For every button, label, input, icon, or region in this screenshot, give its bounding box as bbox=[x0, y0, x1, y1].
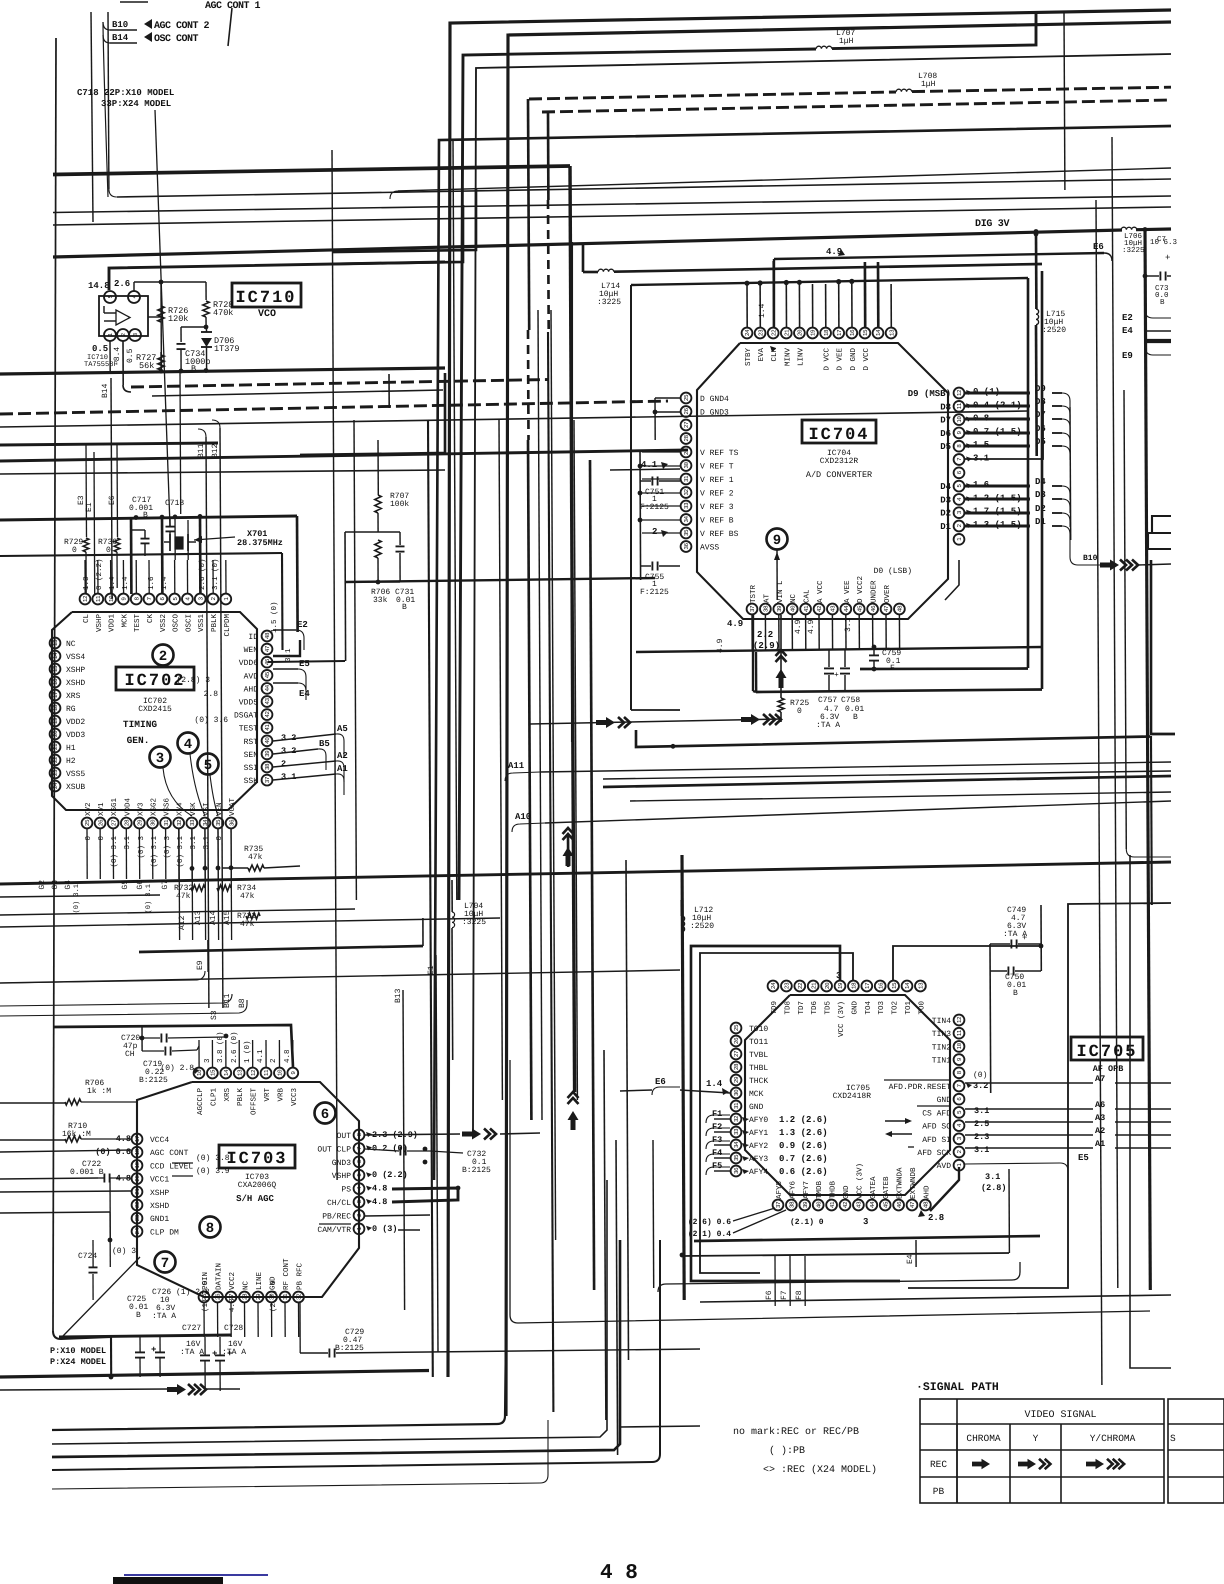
IC703 chip outline bbox=[137, 1082, 359, 1297]
svg-text:VDD1: VDD1 bbox=[109, 614, 117, 633]
svg-text:CXA2006Q: CXA2006Q bbox=[238, 1181, 277, 1190]
svg-text:F7: F7 bbox=[780, 1290, 789, 1300]
svg-text:2: 2 bbox=[281, 759, 286, 769]
svg-text:+: + bbox=[212, 1349, 217, 1359]
svg-text:TVBL: TVBL bbox=[749, 1051, 768, 1060]
svg-text:RG: RG bbox=[66, 705, 76, 714]
svg-text:1.5 (0): 1.5 (0) bbox=[270, 601, 279, 633]
svg-text:D8: D8 bbox=[940, 402, 951, 412]
wire bbox=[506, 22, 1171, 1416]
svg-text::2520: :2520 bbox=[1042, 326, 1066, 335]
svg-text:1k :M: 1k :M bbox=[87, 1087, 111, 1096]
svg-text:23: 23 bbox=[52, 769, 59, 776]
svg-text:3.1: 3.1 bbox=[281, 772, 296, 782]
svg-text:29: 29 bbox=[255, 1293, 262, 1300]
wire pin 30 IC702 bottom bbox=[152, 829, 154, 879]
svg-text:V REF 1: V REF 1 bbox=[700, 476, 734, 485]
wire dashed left bbox=[0, 401, 668, 414]
wire pin 45 IC704 bottom bbox=[858, 615, 860, 650]
svg-text:2.6 (0): 2.6 (0) bbox=[230, 1031, 239, 1063]
svg-text:XSHD: XSHD bbox=[66, 679, 85, 688]
wire pin 19 IC704 top bbox=[812, 284, 814, 328]
svg-text:5: 5 bbox=[204, 758, 212, 774]
svg-text:470k: 470k bbox=[213, 308, 233, 318]
svg-text:20: 20 bbox=[797, 329, 804, 336]
svg-text:MCK: MCK bbox=[749, 1090, 764, 1099]
svg-text:31: 31 bbox=[683, 475, 690, 482]
svg-text:(0) 3.1: (0) 3.1 bbox=[72, 884, 81, 913]
wire knot L1 bbox=[332, 188, 476, 252]
svg-text:D VCC: D VCC bbox=[862, 348, 871, 371]
svg-text:33P:X24 MODEL: 33P:X24 MODEL bbox=[101, 99, 171, 109]
wire bbox=[1112, 137, 1118, 1288]
svg-text:G4: G4 bbox=[64, 880, 73, 890]
svg-text:PS: PS bbox=[341, 1186, 351, 1195]
wire bbox=[499, 420, 502, 1100]
svg-text:1.4: 1.4 bbox=[109, 576, 117, 590]
wire left pins bus bbox=[639, 450, 642, 580]
svg-text:0.7 (2.6): 0.7 (2.6) bbox=[779, 1154, 828, 1164]
svg-text:S3: S3 bbox=[210, 1010, 219, 1020]
svg-text:0.9 (2.6): 0.9 (2.6) bbox=[779, 1141, 828, 1151]
svg-text:36: 36 bbox=[683, 543, 690, 550]
svg-text:47: 47 bbox=[883, 605, 890, 612]
svg-text:(2.8): (2.8) bbox=[981, 1183, 1007, 1193]
wire AVD diagonal bbox=[930, 1167, 959, 1211]
wire pin 16 IC704 top bbox=[851, 284, 853, 328]
svg-text:0.2 (0): 0.2 (0) bbox=[372, 1143, 408, 1153]
svg-text:XV3: XV3 bbox=[136, 802, 145, 816]
wire pin 43 IC704 bottom bbox=[831, 615, 833, 650]
svg-text:Y: Y bbox=[1033, 1433, 1039, 1444]
svg-text:24: 24 bbox=[134, 1227, 141, 1234]
svg-text:4.9: 4.9 bbox=[727, 619, 743, 629]
svg-text:REC: REC bbox=[930, 1459, 947, 1470]
svg-text:3.1: 3.1 bbox=[844, 617, 853, 632]
svg-text:35: 35 bbox=[215, 819, 222, 826]
svg-text:1.3 (2.6): 1.3 (2.6) bbox=[779, 1128, 828, 1138]
wire bbox=[1130, 855, 1171, 1368]
wire bbox=[604, 1050, 606, 1420]
wire VSS2 stub bbox=[161, 517, 164, 594]
wire long 1323 bbox=[510, 1060, 1150, 1323]
junction dots bbox=[190, 866, 195, 871]
svg-text:OSCI: OSCI bbox=[184, 614, 193, 632]
svg-text:0: 0 bbox=[797, 707, 802, 716]
svg-text:F5: F5 bbox=[712, 1161, 722, 1171]
svg-text:CHROMA: CHROMA bbox=[966, 1433, 1001, 1444]
IC703 label box bbox=[219, 1145, 295, 1168]
svg-text:42: 42 bbox=[842, 1201, 849, 1208]
wire bbox=[434, 126, 1171, 1180]
svg-text:MINV: MINV bbox=[784, 348, 792, 367]
svg-text:2.2: 2.2 bbox=[757, 630, 773, 640]
svg-text:VCC1: VCC1 bbox=[150, 1176, 169, 1185]
svg-text:G7: G7 bbox=[161, 880, 170, 890]
wire stubs left IC703 bbox=[0, 1150, 131, 1152]
svg-text:V REF B: V REF B bbox=[700, 517, 734, 526]
svg-text:1T379: 1T379 bbox=[214, 344, 240, 354]
wire pin 20 IC704 top bbox=[798, 284, 800, 328]
svg-text:48: 48 bbox=[923, 1201, 930, 1208]
svg-text:VDD3: VDD3 bbox=[66, 731, 85, 740]
svg-text:31: 31 bbox=[163, 819, 170, 826]
svg-text:VSS4: VSS4 bbox=[66, 653, 85, 662]
svg-text:4.9: 4.9 bbox=[794, 619, 803, 634]
svg-text:21: 21 bbox=[784, 329, 791, 336]
svg-text:24: 24 bbox=[52, 782, 59, 789]
wire bbox=[133, 282, 135, 291]
svg-text:41: 41 bbox=[829, 1201, 836, 1208]
node A1 bbox=[273, 774, 336, 780]
svg-text:(0) 3.9: (0) 3.9 bbox=[196, 1167, 230, 1176]
wire wrap right inner bbox=[631, 278, 1028, 285]
svg-text:38: 38 bbox=[789, 1201, 796, 1208]
capacitor C755 bbox=[651, 562, 653, 571]
wire bbox=[448, 10, 1171, 1377]
svg-text:VSS1: VSS1 bbox=[197, 614, 206, 633]
svg-text:G6: G6 bbox=[136, 880, 145, 890]
svg-text:XV1: XV1 bbox=[98, 802, 106, 816]
wire pin 30 IC703 bottom bbox=[271, 1303, 273, 1337]
svg-text:20: 20 bbox=[824, 982, 831, 989]
wire corner right 2 bbox=[1148, 533, 1171, 549]
IC704 label box bbox=[802, 420, 876, 443]
svg-text:E4: E4 bbox=[906, 1254, 915, 1264]
svg-text:23: 23 bbox=[134, 1214, 141, 1221]
svg-text:11: 11 bbox=[956, 1029, 963, 1036]
pin 5 IC710 bbox=[104, 291, 116, 303]
svg-text:CXD2312R: CXD2312R bbox=[820, 457, 859, 466]
svg-text:10: 10 bbox=[956, 1042, 963, 1049]
svg-text:IC704: IC704 bbox=[808, 426, 869, 445]
wire thick bottom of IC704 zone bbox=[636, 730, 1150, 747]
svg-text:D VCC: D VCC bbox=[823, 348, 832, 371]
IC703 bottom pins 25..32 bbox=[199, 1292, 210, 1303]
svg-text:E1: E1 bbox=[427, 965, 436, 975]
wire right verticals bbox=[989, 944, 992, 1093]
svg-text:VCC3: VCC3 bbox=[290, 1088, 299, 1107]
svg-text:4.8: 4.8 bbox=[228, 1298, 237, 1312]
svg-text:G2: G2 bbox=[38, 880, 47, 890]
svg-text:AF OPB: AF OPB bbox=[1093, 1064, 1124, 1074]
svg-text:23: 23 bbox=[784, 982, 791, 989]
wire bbox=[473, 54, 1171, 1130]
wire pin 44 IC704 bottom bbox=[845, 615, 847, 650]
svg-text:A2: A2 bbox=[337, 751, 348, 761]
wire bbox=[390, 191, 398, 199]
svg-text:B: B bbox=[853, 713, 858, 722]
svg-text:D6: D6 bbox=[940, 429, 951, 439]
svg-text:2.8: 2.8 bbox=[204, 690, 219, 699]
svg-text:19: 19 bbox=[810, 329, 817, 336]
svg-text:13: 13 bbox=[52, 639, 59, 646]
node E4 bbox=[273, 682, 298, 684]
svg-text:C7: C7 bbox=[1157, 235, 1166, 244]
wire pin 28 IC703 bottom bbox=[244, 1303, 246, 1337]
svg-text:S: S bbox=[1170, 1433, 1176, 1444]
svg-text:H2: H2 bbox=[66, 757, 76, 766]
wire pin 15 IC703 top bbox=[211, 1040, 213, 1068]
svg-text:3.1 (0): 3.1 (0) bbox=[211, 558, 220, 590]
svg-text:no mark:REC or REC/PB: no mark:REC or REC/PB bbox=[733, 1426, 859, 1438]
svg-text:CLPDM: CLPDM bbox=[223, 614, 232, 637]
svg-text:THCK: THCK bbox=[749, 1077, 768, 1086]
svg-text:47: 47 bbox=[909, 1201, 916, 1208]
mark 9 bbox=[767, 529, 788, 550]
wire pin 27 IC703 bottom bbox=[230, 1303, 232, 1337]
svg-text:D5: D5 bbox=[940, 442, 951, 452]
arrow right 2 bbox=[741, 714, 760, 725]
svg-text:B10: B10 bbox=[112, 20, 128, 30]
svg-text:34: 34 bbox=[733, 1141, 740, 1148]
svg-text:F:2125: F:2125 bbox=[640, 588, 669, 597]
svg-text:F: F bbox=[890, 664, 895, 673]
wire bottom wrap bbox=[636, 647, 1042, 652]
wire corner 553 bbox=[0, 553, 282, 556]
wire pin 9 IC702 top bbox=[122, 560, 124, 594]
svg-text:33: 33 bbox=[189, 819, 196, 826]
wire pin 25 IC703 bottom bbox=[203, 1303, 205, 1337]
wire DIG 3V bbox=[53, 230, 1122, 257]
svg-text:33k: 33k bbox=[373, 596, 388, 605]
svg-text:DSGAT: DSGAT bbox=[234, 712, 258, 721]
svg-text:OUT CLP: OUT CLP bbox=[317, 1145, 351, 1154]
svg-text:46: 46 bbox=[896, 1201, 903, 1208]
IC705 chip outline bbox=[745, 995, 950, 1195]
svg-text:43: 43 bbox=[264, 698, 271, 705]
wire thick rail above IC702 bbox=[0, 516, 297, 520]
svg-text:0: 0 bbox=[97, 836, 106, 841]
svg-text:TEST: TEST bbox=[133, 614, 142, 633]
svg-text:THDB: THDB bbox=[830, 1180, 838, 1199]
svg-text:29: 29 bbox=[683, 448, 690, 455]
svg-text:XV2: XV2 bbox=[84, 802, 93, 816]
svg-text:14: 14 bbox=[875, 329, 882, 336]
svg-text:AFY6: AFY6 bbox=[788, 1180, 797, 1199]
svg-text:1.6: 1.6 bbox=[147, 576, 156, 590]
svg-text:28.375MHz: 28.375MHz bbox=[237, 538, 283, 548]
svg-text:A14: A14 bbox=[209, 910, 218, 925]
wire bottom wrap 2 bbox=[530, 719, 781, 724]
wire bottom wrap 2 bbox=[682, 1253, 1009, 1256]
svg-text:DIG 3V: DIG 3V bbox=[975, 219, 1010, 230]
svg-text:34: 34 bbox=[202, 819, 209, 826]
inductor L714 bbox=[582, 244, 585, 272]
wire bbox=[53, 38, 56, 1331]
svg-text:20: 20 bbox=[52, 730, 59, 737]
svg-text:2.8: 2.8 bbox=[928, 1213, 944, 1223]
svg-text:D1: D1 bbox=[940, 522, 951, 532]
wire pin 2 IC702 top bbox=[212, 560, 214, 594]
wire pin 13 IC704 top bbox=[890, 284, 892, 328]
wire pin 25 IC702 bottom bbox=[86, 829, 88, 879]
wire knot L2 bbox=[332, 205, 463, 264]
svg-text:3.1: 3.1 bbox=[985, 1172, 1000, 1182]
wire bbox=[682, 855, 684, 1300]
wire pin 31 IC703 bottom bbox=[284, 1303, 286, 1337]
diode D706 bbox=[201, 331, 212, 333]
svg-text:4.1: 4.1 bbox=[257, 1049, 265, 1063]
svg-text:44: 44 bbox=[843, 605, 850, 612]
svg-text:TIN3: TIN3 bbox=[932, 1030, 951, 1039]
svg-text:B14: B14 bbox=[101, 383, 110, 398]
IC704 right pins 12..1 bbox=[954, 388, 965, 399]
svg-text:A7: A7 bbox=[1095, 1074, 1105, 1084]
svg-text:24: 24 bbox=[744, 329, 751, 336]
wire bbox=[53, 207, 1171, 225]
svg-text:PB RFC: PB RFC bbox=[296, 1262, 305, 1290]
mark 7 bbox=[155, 1252, 176, 1273]
svg-text:VSS6: VSS6 bbox=[163, 797, 172, 816]
wire A11 bbox=[505, 772, 540, 781]
wire wrap bottom inner bbox=[860, 667, 1028, 670]
svg-text:AT: AT bbox=[763, 593, 771, 603]
IC702 left pins 13..24 bbox=[50, 638, 61, 649]
wire thick stub bbox=[1146, 339, 1171, 343]
IC703 top pins 16..9 bbox=[194, 1068, 205, 1079]
svg-text:11: 11 bbox=[95, 595, 102, 602]
arrow right bottom-left bbox=[167, 1384, 186, 1395]
svg-text:NC: NC bbox=[66, 640, 76, 649]
svg-text:44: 44 bbox=[869, 1201, 876, 1208]
svg-text:V REF 2: V REF 2 bbox=[700, 490, 734, 499]
label AFD SCK arrow bbox=[908, 1146, 914, 1148]
svg-text:22: 22 bbox=[134, 1201, 141, 1208]
svg-text:38: 38 bbox=[264, 763, 271, 770]
svg-text:VDD4: VDD4 bbox=[124, 797, 132, 816]
svg-text:18: 18 bbox=[823, 329, 830, 336]
resistor R726 bbox=[158, 306, 164, 322]
svg-text:4 8: 4 8 bbox=[600, 1562, 638, 1584]
wire pin 10 IC702 top bbox=[110, 560, 112, 594]
wire bbox=[107, 12, 110, 189]
wire bottom wrap thick bbox=[694, 1236, 1040, 1241]
wire pin 46 IC704 bottom bbox=[872, 615, 874, 650]
svg-text:C727: C727 bbox=[182, 1324, 201, 1333]
pin 3 IC710 bbox=[129, 329, 141, 341]
svg-text:17: 17 bbox=[52, 691, 59, 698]
svg-text:35: 35 bbox=[683, 529, 690, 536]
svg-text:OVER: OVER bbox=[883, 584, 892, 603]
wire pin 31 IC702 bottom bbox=[165, 829, 167, 879]
wire wrap top right bbox=[893, 946, 1041, 980]
wire pin 33 IC702 bottom bbox=[191, 829, 193, 879]
svg-text:42: 42 bbox=[264, 711, 271, 718]
svg-text:IC703: IC703 bbox=[226, 1150, 287, 1169]
svg-text:12: 12 bbox=[956, 389, 963, 396]
svg-text:GATEA: GATEA bbox=[869, 1176, 878, 1199]
wire thick bbox=[0, 443, 218, 445]
wire knot L3 bbox=[300, 373, 445, 455]
svg-text:30: 30 bbox=[683, 462, 690, 469]
svg-text:28: 28 bbox=[242, 1293, 249, 1300]
svg-text:43: 43 bbox=[830, 605, 837, 612]
svg-text:F3: F3 bbox=[712, 1135, 722, 1145]
wire hook B11b bbox=[0, 994, 232, 1006]
wire pin 1 IC702 top bbox=[225, 560, 227, 594]
IC705 label box bbox=[1071, 1037, 1143, 1060]
svg-text:THBL: THBL bbox=[749, 1064, 768, 1073]
svg-text:4.8: 4.8 bbox=[283, 1049, 292, 1063]
node E5 bbox=[273, 668, 298, 670]
svg-text:35: 35 bbox=[733, 1154, 740, 1161]
resistor R706 / capacitor C731 box bbox=[345, 531, 400, 533]
wire bbox=[52, 1330, 506, 1430]
svg-text:15: 15 bbox=[210, 1069, 217, 1076]
svg-text:AGC CONT 2: AGC CONT 2 bbox=[154, 21, 210, 32]
svg-text:VRT: VRT bbox=[264, 1088, 272, 1102]
svg-text:38: 38 bbox=[763, 605, 770, 612]
svg-text:16: 16 bbox=[877, 982, 884, 989]
svg-text:TO2: TO2 bbox=[891, 1001, 900, 1015]
svg-text:A11: A11 bbox=[508, 761, 525, 771]
wire bbox=[626, 860, 629, 1360]
svg-text:6: 6 bbox=[321, 1107, 329, 1123]
svg-text:EXTWNDA: EXTWNDA bbox=[897, 1167, 905, 1199]
svg-text:D3: D3 bbox=[940, 495, 951, 505]
wire PB/REC bbox=[365, 1215, 430, 1216]
svg-text:TO3: TO3 bbox=[877, 1001, 886, 1015]
svg-text:23: 23 bbox=[757, 329, 764, 336]
svg-text:26: 26 bbox=[215, 1293, 222, 1300]
svg-text:26: 26 bbox=[733, 1037, 740, 1044]
wire pin 39 IC704 bottom bbox=[778, 615, 780, 650]
wire bbox=[0, 970, 680, 983]
wire wrap bottom outer bbox=[756, 690, 1042, 693]
wire pin 11 IC702 top bbox=[97, 560, 99, 594]
svg-text:TD7: TD7 bbox=[798, 1001, 806, 1015]
wire bbox=[332, 150, 337, 1180]
wire pin 36 IC702 bottom bbox=[230, 829, 232, 879]
svg-text:C724: C724 bbox=[78, 1252, 97, 1261]
svg-text:24: 24 bbox=[770, 982, 777, 989]
diagonal leader bbox=[62, 1257, 140, 1337]
svg-text:VSS5: VSS5 bbox=[66, 770, 85, 779]
IC710 label box bbox=[232, 283, 301, 307]
wire pin 13 IC703 top bbox=[238, 1040, 240, 1068]
svg-text:AVD: AVD bbox=[937, 1162, 952, 1171]
svg-text:4.8: 4.8 bbox=[372, 1184, 387, 1194]
wire pin 34 IC702 bottom bbox=[204, 829, 206, 879]
svg-text:47k: 47k bbox=[248, 853, 263, 862]
svg-text:16k :M: 16k :M bbox=[62, 1130, 91, 1139]
wire wrap pin19 VCC bbox=[691, 946, 900, 1281]
arrow up below IC704 bbox=[776, 669, 787, 688]
svg-text:VSS2: VSS2 bbox=[159, 614, 168, 632]
svg-text:V REF 3: V REF 3 bbox=[700, 503, 734, 512]
svg-text:XSHP: XSHP bbox=[66, 666, 85, 675]
svg-text::3225: :3225 bbox=[462, 918, 486, 927]
wire bbox=[179, 372, 182, 514]
svg-text:IC710: IC710 bbox=[235, 289, 296, 308]
svg-text:TIN2: TIN2 bbox=[932, 1043, 951, 1052]
svg-text:18: 18 bbox=[52, 704, 59, 711]
svg-text:26: 26 bbox=[97, 819, 104, 826]
svg-text:TO11: TO11 bbox=[749, 1038, 768, 1047]
svg-text:C718: C718 bbox=[165, 499, 184, 508]
wire wrap outer left bbox=[571, 242, 573, 742]
wire pin 32 IC702 bottom bbox=[178, 829, 180, 879]
wire CAM/VTR hook bbox=[398, 1229, 420, 1231]
svg-text:0: 0 bbox=[215, 836, 224, 841]
arrow up mid bbox=[567, 835, 570, 867]
svg-text:B: B bbox=[1160, 299, 1165, 307]
wire IC703 top wrap bbox=[53, 1025, 293, 1067]
svg-text:IC705: IC705 bbox=[1076, 1043, 1137, 1062]
svg-text:WEN: WEN bbox=[244, 646, 259, 655]
wire pin 8 IC702 top bbox=[135, 560, 137, 594]
